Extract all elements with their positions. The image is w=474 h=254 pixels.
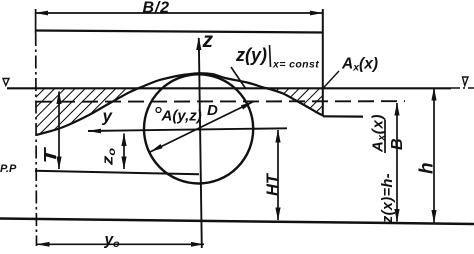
hatched area right (between waterline, wave curve and side wall): [270, 89, 323, 116]
waterline dash-dot right end: [451, 87, 474, 89]
section circle: [144, 74, 253, 183]
svg-text:yo: yo: [104, 232, 121, 251]
svg-text:zo: zo: [99, 148, 117, 166]
svg-text:A(y,z): A(y,z): [161, 108, 202, 125]
svg-text:T: T: [40, 146, 60, 163]
leader from z(y) label to curve: [231, 67, 246, 89]
svg-text:z(y): z(y): [235, 45, 267, 65]
svg-text:D: D: [207, 102, 218, 119]
h dimension arrow: [433, 88, 435, 223]
y axis: [88, 128, 287, 131]
baseline (keel line): [35, 171, 199, 175]
right side wall vertical: [322, 9, 324, 116]
svg-text:y: y: [102, 107, 114, 126]
svg-text:Ax(x): Ax(x): [341, 56, 378, 74]
nabla waterline mark right: [463, 77, 469, 86]
diameter D arrow: [150, 102, 254, 153]
svg-text:h: h: [417, 162, 438, 174]
T dimension arrow: [58, 92, 60, 170]
svg-text:B/2: B/2: [143, 0, 170, 17]
hatched area left (between waterline and wave curve): [36, 86, 145, 135]
still-water dashed line: [36, 100, 405, 103]
svg-text:z: z: [202, 29, 214, 52]
svg-text:Ax(x): Ax(x): [370, 114, 388, 153]
leader from Ax(x) label to wall: [323, 71, 339, 89]
step line right of wall: [323, 115, 363, 117]
svg-text:P.P: P.P: [0, 163, 17, 175]
wave surface curve z(y): [36, 73, 323, 135]
z axis: [199, 38, 202, 248]
dimension line B/2: [35, 12, 323, 14]
top border line of tank: [35, 31, 323, 33]
svg-text:z(x)=h-: z(x)=h-: [380, 173, 396, 224]
z(x) dimension arrow: [396, 103, 398, 222]
svg-text:x= const: x= const: [272, 59, 319, 71]
HT dimension arrow: [277, 130, 279, 220]
nabla waterline mark left: [3, 79, 9, 86]
left centerline (dash-dot): [35, 9, 37, 33]
waterline: [7, 87, 451, 89]
svg-text:B: B: [389, 138, 406, 150]
label z(x)=h-Ax(x)/B (rotated with fraction): [370, 114, 407, 224]
bottom (sea bed) line: [0, 219, 474, 225]
degree circle of A(y,z): [156, 108, 161, 113]
z0 dimension arrow: [123, 134, 125, 170]
svg-text:HT: HT: [264, 172, 282, 196]
y0 dimension line: [37, 243, 205, 245]
